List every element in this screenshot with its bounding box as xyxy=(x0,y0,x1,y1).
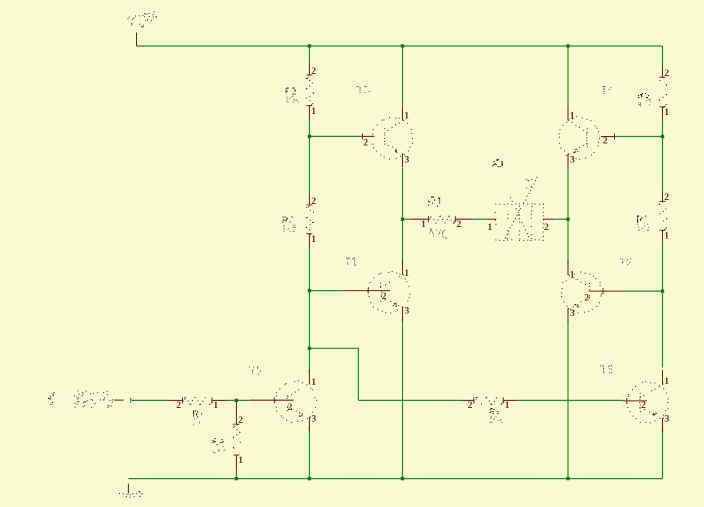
svg-text:3: 3 xyxy=(311,414,316,425)
potentiometer X1 xyxy=(487,177,555,241)
wire T3 emitter to T1 collector xyxy=(402,168,404,265)
junction J10 xyxy=(308,347,311,350)
svg-text:2: 2 xyxy=(664,68,669,79)
junction J1 xyxy=(308,44,311,47)
wire jog horizontal xyxy=(309,347,358,349)
wire left column upper (rail to R3) xyxy=(308,46,310,62)
junction J5 xyxy=(661,135,664,138)
svg-text:2: 2 xyxy=(584,293,589,304)
wire right column rail to R5 xyxy=(662,46,664,65)
svg-text:2: 2 xyxy=(288,402,293,413)
wire node A to T3 base xyxy=(309,135,361,137)
svg-text:2: 2 xyxy=(176,400,181,411)
junction J3 xyxy=(566,44,569,47)
svg-text:2: 2 xyxy=(238,415,243,426)
transistor T2 xyxy=(561,258,631,322)
wire T3 column rail to collector xyxy=(402,46,404,105)
wire right column R5 to R6 xyxy=(662,119,664,191)
transistor T4 xyxy=(559,86,616,168)
wire node B to T1 base xyxy=(309,290,345,292)
svg-text:2: 2 xyxy=(382,291,387,302)
wire jog to R7 xyxy=(358,399,461,401)
transistor T5 xyxy=(249,367,317,432)
svg-text:1: 1 xyxy=(238,455,243,466)
wire jog vertical xyxy=(357,348,359,400)
svg-text:3: 3 xyxy=(405,305,410,316)
svg-text:2: 2 xyxy=(311,196,316,207)
source V1 terminal marks xyxy=(48,392,54,405)
svg-text:1: 1 xyxy=(404,110,409,121)
svg-text:1: 1 xyxy=(404,268,409,279)
wire left column R3 to R2 xyxy=(308,119,310,193)
svg-text:1: 1 xyxy=(570,270,575,281)
junction J2 xyxy=(401,44,404,47)
wire T1 emitter to bottom rail xyxy=(402,319,404,479)
junction J13 xyxy=(308,477,311,480)
junction J15 xyxy=(566,477,569,480)
svg-text:2: 2 xyxy=(544,222,549,233)
wire X1 to mid column xyxy=(555,218,568,220)
svg-text:1: 1 xyxy=(570,110,575,121)
svg-text:1: 1 xyxy=(311,234,316,245)
svg-text:1: 1 xyxy=(311,106,316,117)
wire mid column rail to T4 collector xyxy=(567,46,569,106)
junction J6 xyxy=(401,218,404,221)
resistor R2 xyxy=(283,193,317,247)
junction J7 xyxy=(566,218,569,221)
svg-text:3: 3 xyxy=(570,155,575,166)
power VCC symbol xyxy=(128,11,157,46)
svg-text:2: 2 xyxy=(363,137,368,148)
ground symbol xyxy=(119,484,137,498)
junction J12 xyxy=(235,477,238,480)
svg-text:1: 1 xyxy=(488,222,493,233)
resistor R7 xyxy=(462,397,518,423)
junction J4 xyxy=(308,135,311,138)
resistor R8 xyxy=(169,397,226,426)
svg-text:1: 1 xyxy=(421,219,426,230)
wire left column T5 emitter to rail xyxy=(308,427,310,479)
potentiometer X1 label xyxy=(493,159,503,167)
wire R7 to T6 base xyxy=(517,399,623,401)
ground net label xyxy=(139,491,143,497)
svg-text:1: 1 xyxy=(505,400,510,411)
transistor T3 xyxy=(357,86,414,167)
wire source to R8 xyxy=(132,399,169,401)
resistor R6 xyxy=(637,190,669,241)
svg-text:2: 2 xyxy=(311,66,316,77)
wire left column R2 to T5 collector xyxy=(308,247,310,373)
svg-text:3: 3 xyxy=(405,155,410,166)
wire R8 to node C xyxy=(226,399,250,401)
wire ground bottom rail xyxy=(128,478,662,480)
junction J9 xyxy=(661,289,664,292)
svg-text:2: 2 xyxy=(664,192,669,203)
wire R9 to bottom rail xyxy=(235,471,237,479)
junction J11 xyxy=(235,399,238,402)
svg-text:1: 1 xyxy=(664,376,669,387)
svg-text:2: 2 xyxy=(641,400,646,411)
wire R1 to X1 xyxy=(473,218,487,220)
wire mid column T2 emitter to bottom rail xyxy=(567,319,569,479)
wire VCC top rail xyxy=(137,45,663,47)
transistor T6 xyxy=(600,365,670,432)
svg-text:2: 2 xyxy=(603,135,608,146)
svg-text:2: 2 xyxy=(457,219,462,230)
svg-text:3: 3 xyxy=(570,308,575,319)
wire T2 base to right column xyxy=(624,290,662,292)
wire right column T6 emitter to rail xyxy=(662,427,664,479)
transistor T1 xyxy=(345,258,410,322)
voltage source V1 xyxy=(74,390,124,408)
resistor R3 xyxy=(286,62,317,119)
svg-text:3: 3 xyxy=(665,414,670,425)
svg-text:1: 1 xyxy=(213,400,218,411)
svg-text:1: 1 xyxy=(664,231,669,242)
resistor R5 xyxy=(638,65,669,118)
wire T3 emitter node to R1 xyxy=(403,218,411,220)
junction J14 xyxy=(401,477,404,480)
resistor R9 xyxy=(213,400,244,470)
wire right column R6 to T6 collector xyxy=(662,241,664,367)
svg-text:2: 2 xyxy=(468,400,473,411)
resistor R1 xyxy=(411,197,473,239)
svg-text:1: 1 xyxy=(664,107,669,118)
wire mid column T4 emitter to T2 collector xyxy=(567,167,569,265)
svg-text:1: 1 xyxy=(311,377,316,388)
junction J8 xyxy=(308,289,311,292)
wire T4 base to right column xyxy=(616,136,663,138)
